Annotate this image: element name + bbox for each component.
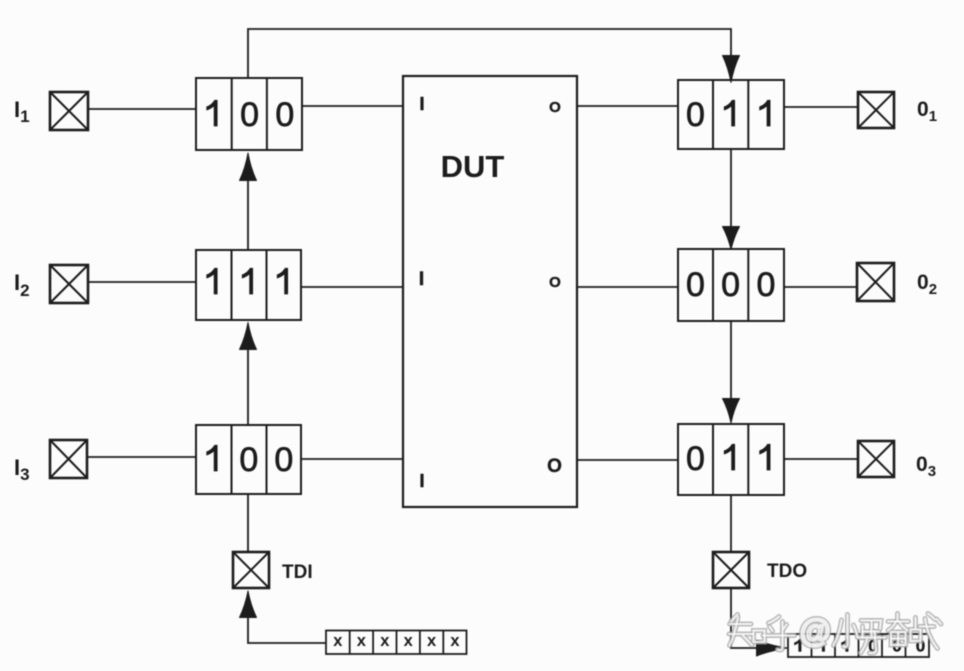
wire DUT output O to BSC5	[577, 286, 678, 288]
wire scan chain BSC2 up to BSC1	[247, 180, 249, 249]
svg-text:TDI: TDI	[282, 562, 313, 583]
wire BSC2 to DUT input I	[301, 286, 403, 288]
arrowhead down into BSC4 top	[723, 56, 740, 83]
result register digits 1 1 1 0 0 0	[794, 637, 925, 656]
TDI stimulus shift register xxxxxx	[326, 631, 467, 655]
BSC2 digits 1 1 1	[207, 268, 288, 294]
svg-text:I1: I1	[14, 97, 30, 126]
input pad I2 (crossed box)	[50, 265, 88, 303]
svg-text:O: O	[549, 99, 561, 116]
BSC1 digits 1 0 0	[207, 96, 295, 134]
wire BSC3 to DUT input I	[301, 458, 403, 460]
svg-text:0: 0	[275, 96, 294, 134]
wire scan chain BSC3 up to BSC2	[247, 349, 249, 424]
svg-text:DUT: DUT	[441, 149, 505, 184]
svg-text:TDO: TDO	[767, 561, 807, 582]
DUT box	[403, 76, 577, 507]
wire scan chain BSC4 down to BSC5	[730, 149, 732, 228]
wire DUT output O to BSC6	[577, 459, 678, 461]
arrowhead down into BSC6 top	[723, 399, 740, 424]
boundary scan cell BSC5 value 000	[678, 249, 784, 321]
TDO pad (crossed box)	[713, 552, 749, 588]
TDI pad (crossed box)	[233, 552, 269, 588]
boundary scan cell BSC6 value 011	[678, 424, 784, 495]
wire input I1 pad to BSC1	[88, 108, 196, 110]
watermark outline pass	[729, 613, 941, 653]
svg-text:x: x	[380, 632, 390, 650]
svg-text:03: 03	[916, 453, 936, 480]
arrowhead down into BSC5 top	[723, 227, 740, 250]
output pad O1 (crossed box)	[858, 92, 894, 128]
svg-text:x: x	[357, 632, 367, 650]
stimulus register x labels	[333, 632, 460, 650]
input pad I1 (crossed box)	[50, 92, 88, 130]
arrowhead up into BSC2 bottom	[240, 323, 257, 350]
arrowhead up into TDI pad bottom	[240, 591, 257, 618]
wire BSC4 to output O1 pad	[784, 106, 858, 108]
boundary scan cell BSC3 value 100	[196, 425, 301, 494]
BSC4 digits 0 1 1	[686, 96, 770, 134]
svg-text:0: 0	[686, 266, 705, 304]
wire BSC6 to output O3 pad	[784, 458, 858, 460]
arrowhead up into BSC1 bottom	[240, 153, 257, 181]
svg-text:I2: I2	[14, 270, 30, 300]
output pad O3 (crossed box)	[858, 441, 894, 477]
svg-text:0: 0	[721, 266, 740, 304]
wire top feedback from left register BSC1 up and across to right register BSC4	[248, 29, 731, 78]
svg-text:x: x	[450, 632, 460, 650]
wire TDI stimulus register up to TDI pad	[248, 617, 326, 643]
svg-text:I3: I3	[14, 455, 30, 484]
BSC3 digits 1 0 0	[207, 441, 294, 479]
svg-text:0: 0	[686, 440, 705, 478]
svg-text:0: 0	[274, 441, 293, 479]
svg-text:O: O	[549, 274, 561, 291]
watermark white core pass	[729, 613, 941, 653]
wire scan chain BSC5 down to BSC6	[730, 321, 732, 399]
boundary scan cell BSC4 value 011	[678, 80, 784, 149]
svg-text:02: 02	[917, 271, 937, 298]
output pad O2 (crossed box)	[857, 263, 894, 301]
BSC6 digits 0 1 1	[686, 440, 770, 478]
svg-text:01: 01	[917, 98, 937, 125]
wire input I3 pad to BSC3	[87, 456, 196, 458]
svg-text:I: I	[419, 94, 424, 114]
wire DUT output O to BSC4	[577, 105, 678, 107]
svg-text:0: 0	[686, 96, 705, 134]
wire BSC6 down to TDO pad	[730, 495, 732, 552]
wire BSC3 down to TDI pad	[247, 494, 249, 552]
wire BSC1 to DUT input I	[302, 105, 403, 107]
boundary scan cell BSC2 value 111	[196, 250, 301, 320]
svg-text:I: I	[419, 269, 424, 290]
svg-text:x: x	[333, 632, 343, 650]
boundary scan cell BSC1 value 100	[196, 78, 302, 150]
svg-text:x: x	[427, 632, 437, 650]
svg-text:O: O	[547, 456, 562, 477]
svg-text:0: 0	[240, 96, 259, 134]
svg-text:0: 0	[239, 441, 258, 479]
wire TDO pad down to result register	[731, 588, 758, 648]
svg-text:0: 0	[757, 266, 776, 304]
wire BSC5 to output O2 pad	[784, 286, 857, 288]
arrowhead right into result register	[757, 640, 788, 656]
svg-text:x: x	[404, 632, 414, 650]
svg-text:I: I	[419, 471, 424, 491]
input pad I3 (crossed box)	[50, 440, 87, 478]
TDO result shift register 111000	[788, 634, 929, 657]
wire input I2 pad to BSC2	[88, 281, 196, 283]
BSC5 digits 0 0 0	[686, 266, 775, 304]
